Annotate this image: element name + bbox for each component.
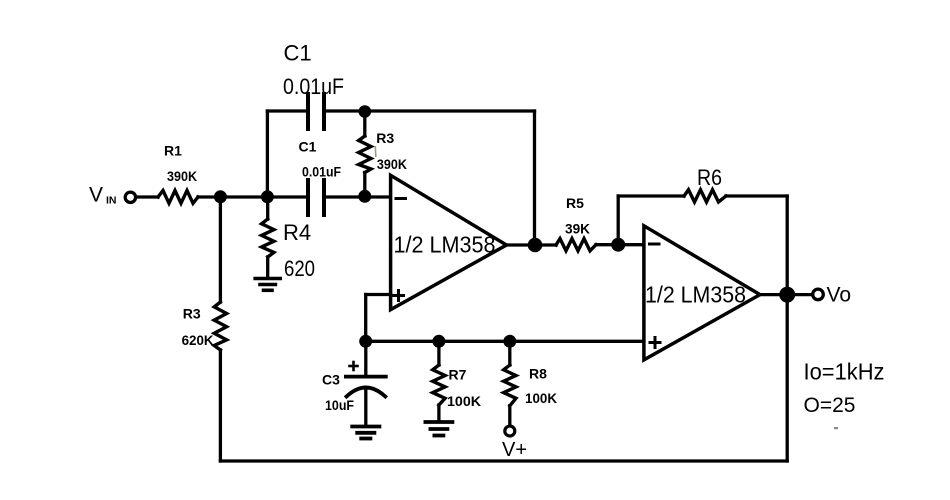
svg-text:V: V [89,184,103,207]
node dot R7 [432,335,445,348]
op-amp U1 plus [394,294,404,297]
svg-text:V+: V+ [502,439,527,461]
wire plus rail [366,340,644,343]
resistor R7 leads [437,341,440,365]
svg-text:R7: R7 [449,367,467,383]
node dot C3 [359,335,372,348]
op-amp U2 minus [650,243,660,246]
wire node B to cap [324,195,391,198]
node dot A [214,190,227,203]
capacitor C1 top plates [306,94,310,129]
svg-text:0.01uF: 0.01uF [302,164,341,180]
wire op2 output [760,293,812,296]
capacitor C3 top plate [346,375,386,379]
resistor R6 leads [618,194,684,197]
svg-text:R8: R8 [529,366,547,382]
op-amp U1 triangle [391,175,507,309]
resistor R5 leads [535,243,556,246]
resistor R3 vertical leads [363,111,366,136]
wire VIN to R1 [137,195,158,198]
wire node up to R6 [617,196,620,245]
node dot R3 bottom [358,190,371,203]
wire right vertical rail [786,196,789,461]
op-amp U1 minus [396,197,406,200]
wire R1 to node A [198,195,308,198]
svg-text:R6: R6 [697,165,722,190]
svg-text:1/2 LM358: 1/2 LM358 [394,232,496,258]
wire op1 plus lead [366,293,391,296]
svg-text:R1: R1 [164,143,182,159]
capacitor C3 curved plate [347,388,386,397]
node dot B [261,190,274,203]
op-amp U2 triangle [644,226,760,360]
capacitor C3 plus sign [350,365,358,368]
node V+ terminal [505,426,515,436]
svg-text:C1: C1 [284,41,312,66]
artifact dot [834,427,838,429]
svg-text:Vo: Vo [827,284,852,307]
svg-text:R4: R4 [283,220,311,245]
resistor R8 leads [508,341,511,365]
svg-text:C3: C3 [322,372,340,388]
artifact tick [374,146,377,157]
node dot R8 [503,335,516,348]
svg-text:C1: C1 [299,139,317,155]
svg-text:390K: 390K [167,168,197,184]
resistor R3 620K zigzag [214,302,226,350]
svg-text:R3: R3 [183,305,201,321]
svg-text:1/2 LM358: 1/2 LM358 [645,282,746,308]
svg-text:10uF: 10uF [325,397,354,413]
wire node to op2 minus [618,243,644,246]
resistor R8 zigzag [504,365,516,406]
capacitor C1 lower plates [306,180,310,215]
svg-text:100K: 100K [447,393,481,409]
resistor R3 vertical zigzag [359,136,371,173]
resistor R7 zigzag [433,365,445,405]
ground R7 [425,420,452,424]
svg-text:O=25: O=25 [804,394,856,417]
op-amp U2 plus [650,341,660,344]
svg-text:IN: IN [106,195,117,207]
svg-text:R3: R3 [376,130,394,146]
resistor R5 zigzag [556,239,596,251]
svg-text:Io=1kHz: Io=1kHz [804,359,885,385]
svg-text:R5: R5 [566,195,584,211]
svg-text:0.01uF: 0.01uF [283,74,344,99]
resistor R4 zigzag [262,219,274,257]
svg-text:620: 620 [284,256,315,281]
capacitor C3 lead bottom [364,389,367,426]
wire bottom rail [220,459,787,462]
node dot R5 right [611,238,625,252]
capacitor C3 lead top [364,341,367,376]
svg-text:100K: 100K [525,390,557,406]
resistor R1 [158,191,198,204]
svg-text:39K: 39K [565,221,590,237]
node dot op2 out [779,287,795,303]
ground R4 [255,277,280,281]
ground C3 [352,425,379,429]
wire top right [324,109,535,112]
svg-text:390K: 390K [377,156,407,172]
wire op1 output [507,243,536,246]
node Vo terminal [813,289,824,300]
svg-text:620K: 620K [182,332,214,348]
wire top left [267,109,308,112]
wire right vertical to op1 output [533,111,536,245]
resistor R3 620K leads [219,197,222,302]
node dot op1 out [528,238,543,253]
resistor R4 leads [266,197,269,219]
resistor R6 zigzag [684,190,726,202]
node VIN terminal [125,192,135,202]
wire node B up to top loop [266,111,269,197]
node dot top [359,105,372,118]
